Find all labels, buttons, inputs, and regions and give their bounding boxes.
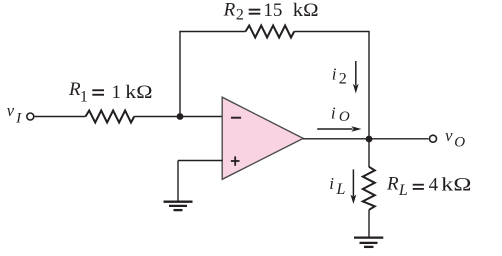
wire [178,160,223,162]
resistor R1 [86,111,135,123]
wire [303,138,429,140]
svg-text:iO: iO [331,104,350,126]
svg-text:R: R [386,174,399,195]
terminal vO [430,135,437,142]
ground (load RL) [354,238,383,247]
wire [368,32,370,140]
resistor RL [363,167,375,210]
current arrow iL [351,169,357,204]
svg-text:vI: vI [7,101,22,126]
svg-text:kΩ: kΩ [125,82,152,103]
node B junction dot [366,136,373,143]
wire [177,161,179,202]
wire [179,32,181,117]
label RL value [386,174,471,200]
svg-text:vO: vO [445,126,465,151]
ground (op-amp + input) [164,202,193,210]
svg-text:15: 15 [263,0,282,21]
svg-text:2: 2 [236,7,244,24]
svg-text:4: 4 [429,174,439,195]
svg-text:1: 1 [80,89,88,106]
terminal vI [27,113,34,120]
current arrow i2 [353,61,359,94]
svg-text:R: R [223,0,236,21]
label R2 value [223,0,319,24]
wire [368,139,370,167]
wire [368,210,370,237]
svg-text:L: L [398,182,408,199]
wire [179,31,245,33]
svg-text:iL: iL [329,174,345,198]
wire [134,116,222,118]
wire [35,116,86,118]
svg-text:kΩ: kΩ [293,0,319,21]
op-amp U1 [222,97,303,179]
svg-text:i2: i2 [332,65,347,88]
svg-text:1: 1 [112,82,122,103]
label R1 value [68,79,153,105]
wire [294,31,370,33]
svg-text:kΩ: kΩ [441,174,471,195]
resistor R2 [246,26,295,38]
node A junction dot [177,113,184,120]
current arrow iO [317,126,361,132]
